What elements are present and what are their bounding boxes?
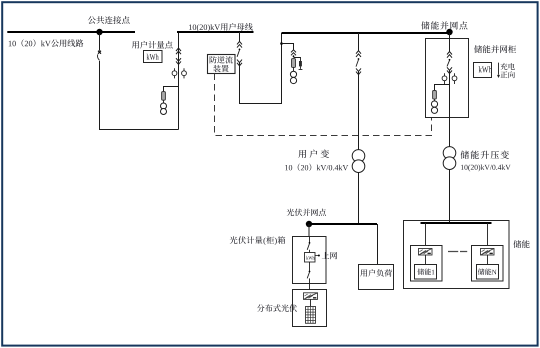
switch S1 x-mark [98, 51, 101, 54]
wire PV inner 4 [309, 278, 311, 289]
meter kWh box M3 [305, 253, 316, 263]
breaker CB2 blade [239, 49, 241, 51]
node annotation dot [318, 255, 320, 257]
CT T2 right stub [454, 73, 456, 84]
label: 储能并网柜 [474, 45, 516, 53]
wire PV drop [308, 224, 310, 236]
breaker CB4 contacts upper [447, 52, 452, 58]
label: 正向 [500, 71, 514, 78]
bus storage inner bus [421, 222, 492, 224]
annotation tick to dot [315, 255, 318, 257]
battery 储能1 box [415, 265, 437, 280]
label: 充电 [500, 63, 514, 70]
CT T2 right circle [452, 76, 457, 81]
meter kWh box M1 [144, 51, 163, 63]
breaker CB1 withdrawable contacts upper [176, 48, 181, 54]
label: 用户负荷 [360, 269, 392, 277]
inverter PCSN [481, 249, 495, 256]
bus 10(20)kV user busbar [177, 31, 254, 33]
breaker CB1 withdrawable contacts lower [176, 58, 181, 64]
switch S3 blade [309, 271, 311, 273]
wire user tx secondary [358, 172, 360, 224]
cabinet 储能并网柜 box [426, 39, 469, 118]
arrester F1 tail [300, 66, 302, 69]
annotation arrow 充电正向 [498, 63, 500, 75]
breaker CB4 contacts lower [447, 67, 452, 73]
label: kWh meter M2 [479, 66, 492, 72]
label: 10(20)kV/0.4kV (storage tx) [461, 165, 511, 172]
label: kWh meter M1 [147, 54, 159, 60]
wire FU1 to PT1 [163, 100, 165, 103]
dashed separator [448, 251, 467, 253]
wire 10(20)kV public line (bus) [7, 31, 135, 33]
CT T2 left stub [444, 73, 446, 84]
breaker CB2 contacts upper [237, 41, 242, 47]
arrester F1 ground tick [299, 69, 303, 71]
inverter PCS1 [419, 249, 433, 256]
wire metering riser [178, 32, 180, 130]
wire PT3 stub [435, 85, 450, 91]
label: 装置 [213, 65, 228, 72]
cabinet 光伏计量(柜)箱 box [293, 237, 327, 284]
wire user load drop [377, 224, 379, 265]
dashed control link 防逆流-储能 [215, 74, 432, 136]
label: 公共连接点 [88, 16, 130, 24]
CT T1 left circle [172, 71, 177, 76]
wire storage tx secondary [449, 169, 451, 223]
plant 储能 outer box [404, 221, 510, 289]
node PCC dot 公共连接点 [96, 29, 102, 35]
label: 10(20)kV用户母线 [189, 23, 253, 32]
wire tie U-run [240, 33, 282, 104]
wire FU2 to TV2 [293, 67, 295, 71]
CT T1 right stub [183, 68, 185, 78]
fuse FU2 [292, 59, 296, 68]
wire PCS1 to battery1 [425, 255, 427, 265]
transformer T-user 用户变 [352, 150, 365, 163]
label: 储能升压变 [461, 151, 509, 159]
cabinet 分布式光伏 box [293, 290, 327, 327]
bus storage tie bus [282, 32, 450, 34]
contact chevrons PT2 [291, 50, 296, 56]
node junction J1 [280, 42, 283, 45]
wire storage branch N [487, 223, 489, 246]
switch S1 blade [98, 54, 100, 60]
wire PV inner 2 [309, 250, 311, 253]
bus LV tie 光伏并网点-用户负荷 [309, 223, 377, 225]
unit 储能1 box [411, 246, 443, 282]
wire PCC drop upper [99, 33, 101, 51]
label: 分布式光伏 [257, 304, 297, 312]
label: 用户变 [298, 150, 329, 158]
wire PCC drop lower + bottom run [100, 61, 179, 130]
fuse FU1 [162, 92, 166, 101]
switch PT2 dot [293, 55, 295, 57]
PV panel 分布式光伏 symbol [306, 307, 316, 324]
breaker CB2 contacts lower [237, 60, 242, 66]
wire PV inner 3 [309, 262, 311, 271]
wire FU3 to TV3 [434, 99, 436, 101]
breaker CB4 blade [449, 59, 451, 61]
node 光伏并网点 dot [306, 221, 312, 227]
label: 防逆流 [210, 56, 233, 63]
transformer T-storage 储能升压变 [443, 147, 456, 160]
PT TV2 double circle [290, 71, 296, 77]
label: 10（20）kV/0.4kV (user tx) [285, 164, 348, 172]
PT TV1 double circle [161, 103, 167, 109]
PT TV3 double circle [431, 101, 437, 107]
wire storage branch 1 [425, 223, 427, 246]
wire cabinet riser [449, 33, 451, 52]
device 防逆流装置 box [208, 55, 236, 74]
wire cabinet mid [449, 70, 451, 117]
CT T1 left stub [174, 68, 176, 78]
label: 光伏并网点 [287, 209, 326, 216]
label: 上网 [322, 252, 337, 259]
wire user tx feeder upper [358, 33, 360, 51]
unit 储能N box [472, 246, 504, 282]
breaker CB3 contacts lower [356, 68, 361, 74]
label: 储能并网点 [421, 21, 467, 29]
load 用户负荷 box [359, 265, 394, 290]
fuse FU3 [433, 91, 437, 100]
wire tie drop top [239, 32, 241, 41]
wire PCSN to batteryN [487, 255, 489, 265]
label: 10（20）kV公用线路 [9, 39, 84, 47]
wire PT1 stub [164, 87, 179, 92]
switch S2 blade [309, 242, 311, 244]
breaker CB3 blade [358, 58, 360, 60]
CT T2 left circle [442, 76, 447, 81]
label: 储能1 [418, 268, 435, 275]
meter kWh box M2 [474, 63, 492, 78]
CT T1 right circle [182, 71, 187, 76]
wire PV inverter to panel [310, 299, 312, 306]
wire cabinet to storage tx [449, 118, 451, 148]
arrester F1 body [299, 61, 302, 66]
wire PV inner 1 [309, 237, 311, 243]
label: 用户计量点 [132, 41, 173, 49]
breaker CB3 contacts upper [356, 51, 361, 57]
inverter PV inverter [304, 293, 318, 300]
label: 储能 [513, 240, 529, 248]
arrester F1 stub [294, 58, 301, 62]
wire PT2 stub [282, 44, 294, 50]
label: 光伏计量(柜)箱 [230, 236, 285, 245]
wire user tx feeder mid [358, 71, 360, 150]
battery 储能N box [477, 265, 499, 280]
label: 储能N [478, 268, 497, 275]
label: kWh meter M3 [306, 256, 314, 260]
node 储能并网点 dot [446, 29, 452, 35]
